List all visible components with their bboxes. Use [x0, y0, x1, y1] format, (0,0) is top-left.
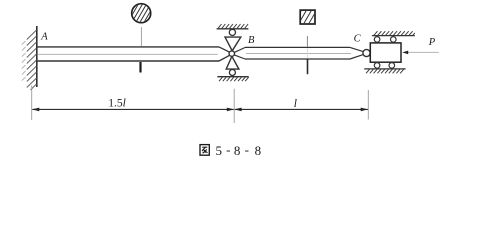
- svg-text:-: -: [245, 142, 249, 157]
- svg-text:8: 8: [234, 143, 241, 158]
- svg-text:P: P: [428, 37, 436, 48]
- svg-text:C: C: [354, 34, 362, 45]
- svg-text:A: A: [40, 32, 48, 43]
- svg-text:l: l: [294, 98, 297, 110]
- svg-text:B: B: [248, 35, 255, 46]
- svg-text:-: -: [226, 142, 230, 157]
- svg-text:1.5l: 1.5l: [108, 98, 126, 110]
- svg-text:8: 8: [255, 143, 262, 158]
- svg-text:5: 5: [216, 143, 223, 158]
